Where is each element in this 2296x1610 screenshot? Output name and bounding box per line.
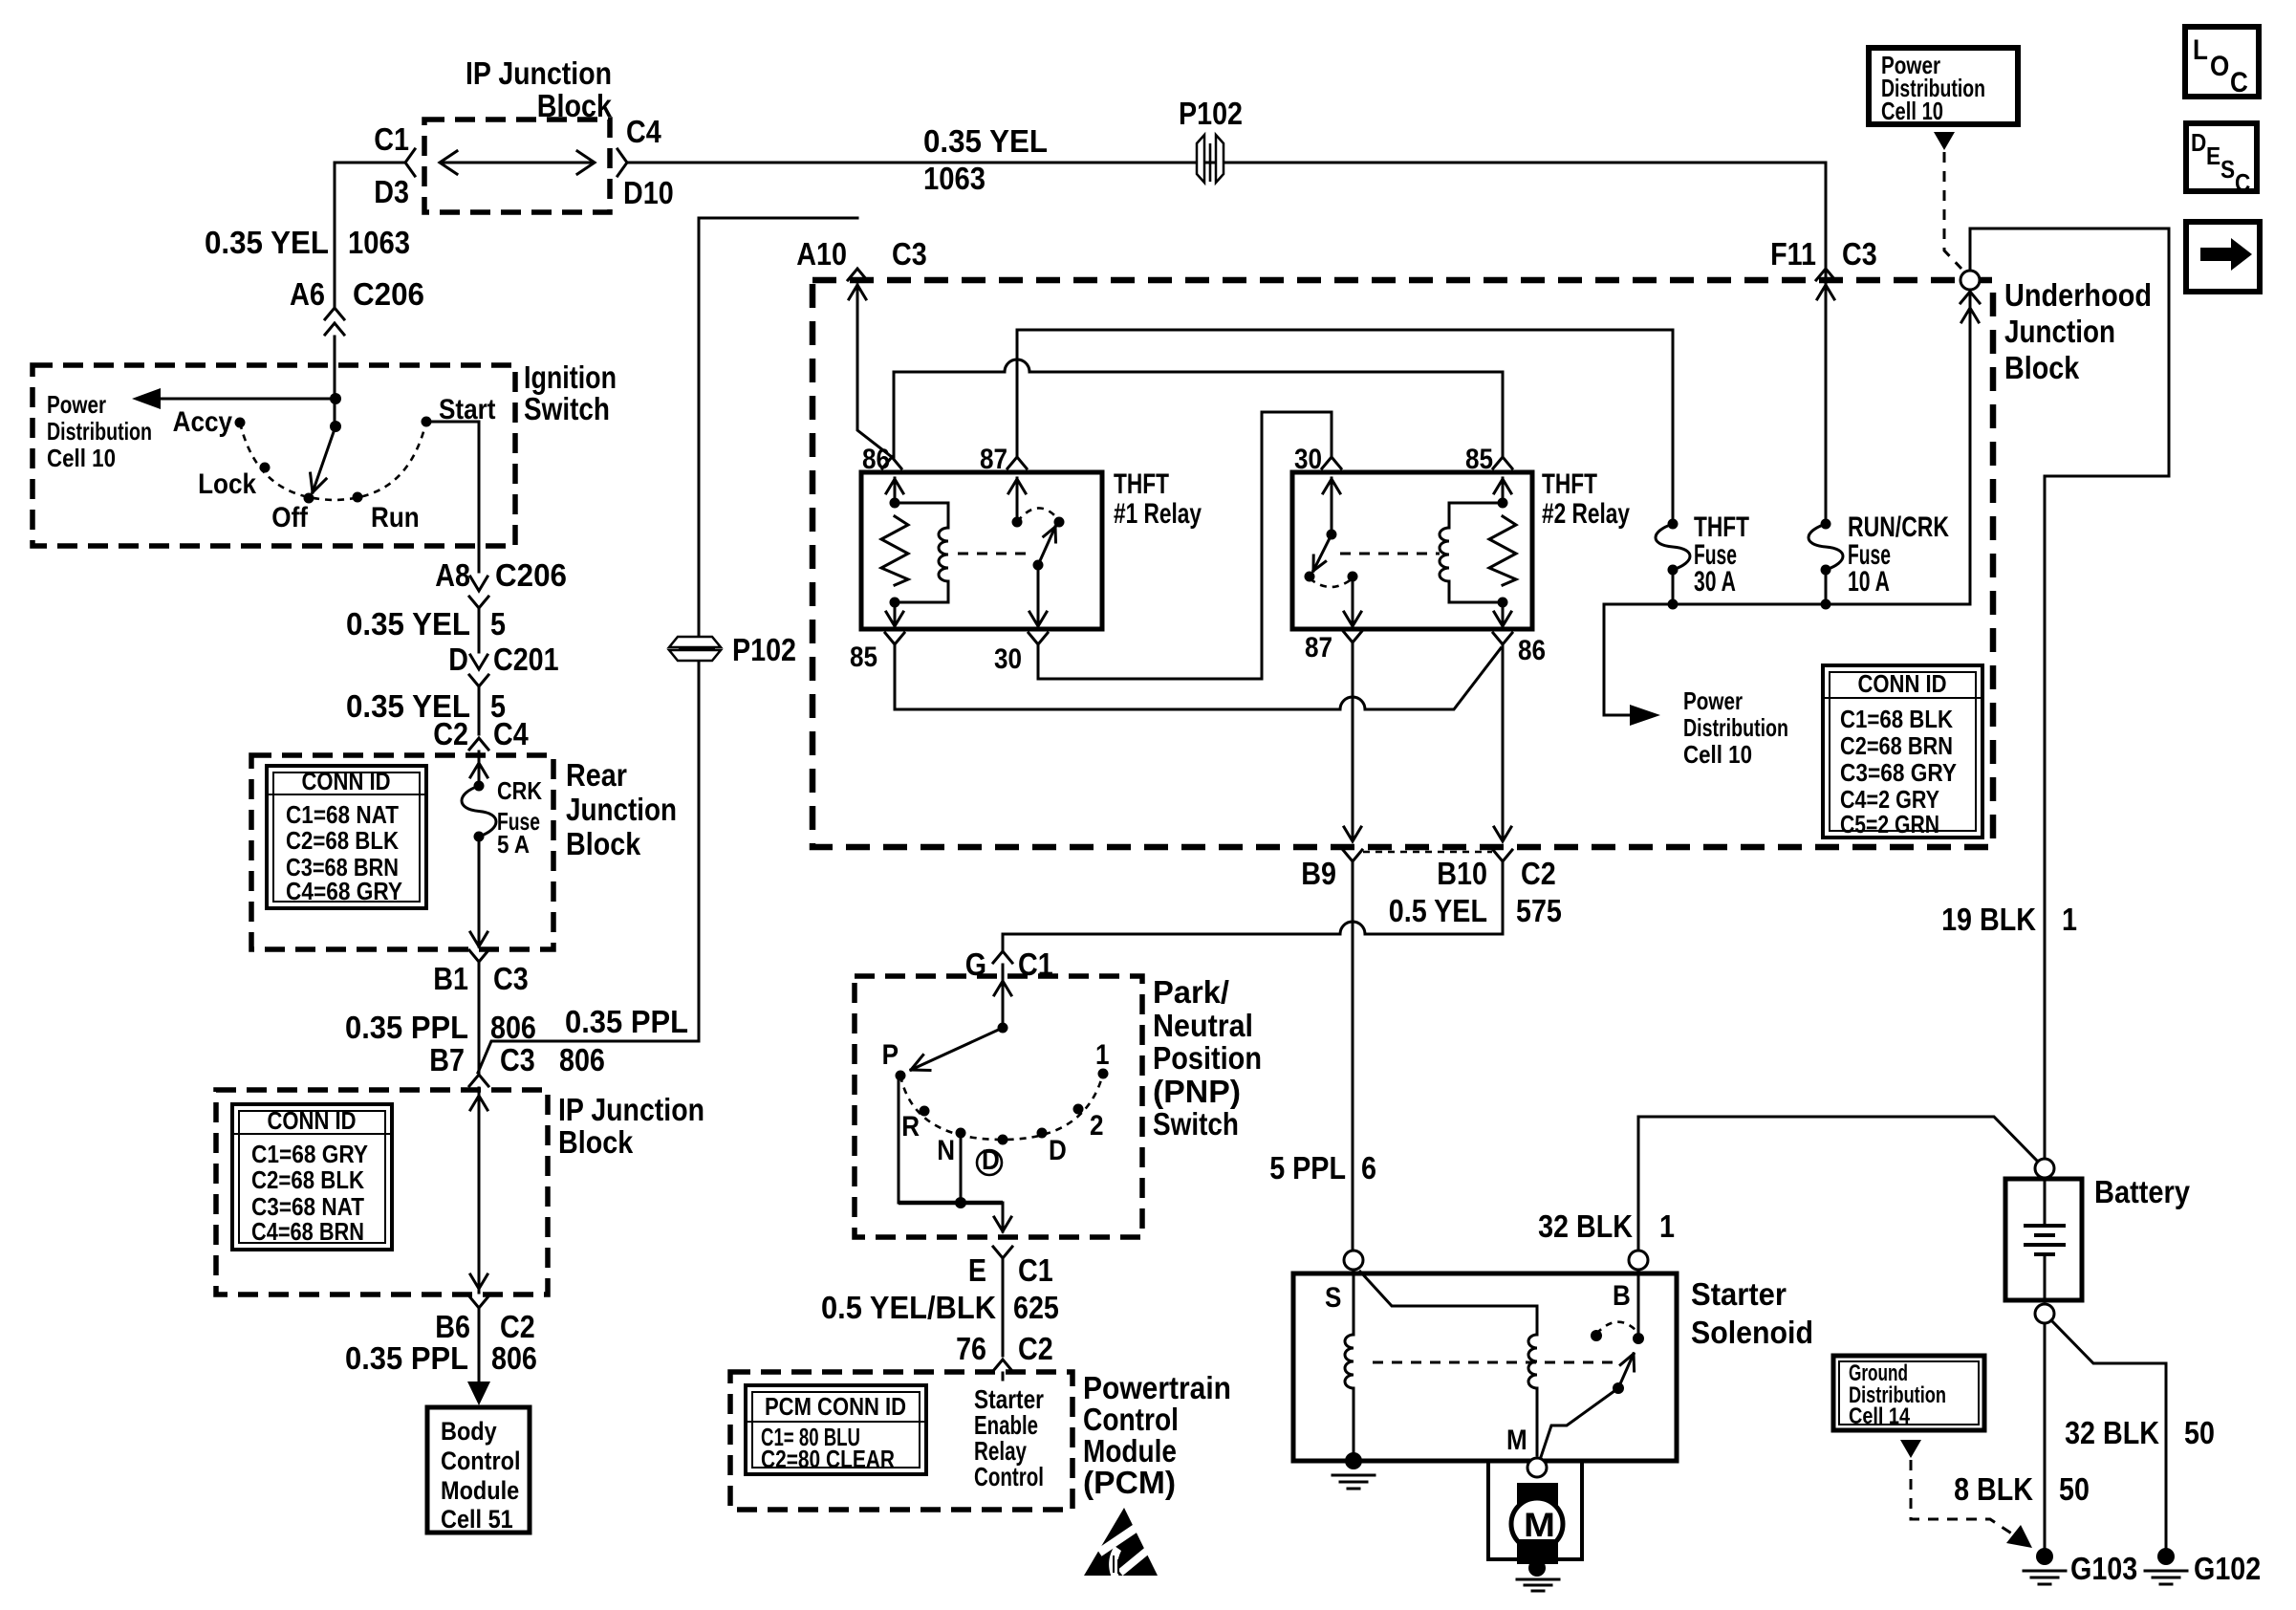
wire from A10 into relay 1 pin 86	[849, 285, 866, 299]
solenoid actuation dashed link	[1373, 1361, 1614, 1364]
svg-text:(PNP): (PNP)	[1153, 1074, 1241, 1109]
svg-text:C1: C1	[374, 121, 409, 157]
starter solenoid box	[1293, 1273, 1677, 1461]
DESC reference box	[2186, 123, 2257, 197]
ground G103	[2024, 1548, 2066, 1584]
svg-text:C3=68 GRY: C3=68 GRY	[1840, 758, 1957, 787]
svg-text:Starter: Starter	[1691, 1276, 1787, 1312]
svg-text:30: 30	[994, 643, 1022, 675]
svg-text:G102: G102	[2194, 1551, 2261, 1586]
battery positive terminal circle	[2035, 1159, 2054, 1178]
connector C3 chevron below rear junction block	[469, 950, 488, 962]
svg-text:CONN ID: CONN ID	[1858, 669, 1947, 698]
svg-text:L: L	[2193, 34, 2208, 66]
connector C3 chevron F11	[1816, 269, 1835, 280]
svg-text:B6: B6	[435, 1309, 470, 1344]
svg-text:C2: C2	[433, 716, 468, 751]
battery G1 box	[2005, 1179, 2082, 1300]
fuse output bus wire	[1604, 603, 1970, 606]
ground distribution pointer triangle	[1900, 1440, 1921, 1458]
relay K1 pin 30 fork	[1029, 633, 1048, 644]
svg-text:50: 50	[2184, 1415, 2215, 1450]
svg-text:M: M	[1506, 1425, 1527, 1456]
relay K2 switch common lead (pin 30)	[1331, 478, 1333, 534]
starter motor brush (top)	[1517, 1483, 1558, 1509]
svg-text:C4: C4	[493, 716, 529, 751]
solenoid switch link to M terminal	[1541, 1388, 1618, 1457]
svg-text:Switch: Switch	[1153, 1106, 1239, 1142]
connector C2 chevron below IP junction block	[469, 1296, 488, 1308]
wire B10 to PNP switch G (hop over B9 wire)	[1003, 861, 1503, 949]
PNP switch common pivot node	[998, 1023, 1008, 1033]
relay K1 pin 86 fork	[882, 457, 901, 468]
wire RUN/CRK fuse to bus	[1825, 570, 1828, 604]
svg-text:A8: A8	[435, 557, 470, 593]
svg-text:C2=68 BLK: C2=68 BLK	[251, 1165, 364, 1194]
relay K2 switch throw contact	[1305, 572, 1315, 582]
svg-text:32 BLK: 32 BLK	[2065, 1415, 2159, 1450]
svg-text:2: 2	[1090, 1110, 1104, 1142]
svg-text:Block: Block	[2004, 350, 2080, 385]
ESD sensitive device symbol	[1084, 1508, 1158, 1577]
svg-text:CONN ID: CONN ID	[302, 767, 391, 795]
svg-text:0.35 YEL: 0.35 YEL	[205, 225, 329, 260]
theft deterrent relay center dashed box	[812, 280, 1993, 847]
svg-text:30 A: 30 A	[1694, 566, 1736, 598]
svg-text:Battery: Battery	[2094, 1174, 2191, 1209]
relay K1 resistor	[881, 516, 908, 585]
PNP position dashed arc	[900, 1074, 1103, 1140]
CRK fuse element	[462, 786, 496, 837]
connector C206 chevron (A8)	[469, 597, 488, 608]
svg-text:C1: C1	[1018, 1252, 1053, 1288]
svg-text:C2: C2	[500, 1309, 535, 1344]
svg-text:R: R	[901, 1111, 920, 1142]
svg-text:D10: D10	[623, 175, 674, 210]
relay K1 switch output lead (pin 30)	[1037, 565, 1040, 626]
PNP contact P	[896, 1071, 906, 1081]
RUN/CRK fuse top terminal	[1821, 519, 1831, 530]
starter motor M1	[1511, 1498, 1563, 1550]
terminal B circle	[1629, 1251, 1648, 1270]
svg-text:A10: A10	[796, 236, 847, 272]
svg-text:N: N	[937, 1135, 955, 1166]
svg-text:F11: F11	[1770, 236, 1816, 272]
solenoid coil case ground	[1345, 1452, 1362, 1469]
Rear Junction Block dashed box	[251, 755, 553, 949]
junction node THFT fuse / bus	[1668, 599, 1679, 610]
svg-text:C4=68 BRN: C4=68 BRN	[251, 1217, 364, 1246]
wire F11 to RUN/CRK fuse	[1825, 163, 1828, 524]
svg-text:Neutral: Neutral	[1153, 1008, 1253, 1043]
svg-text:Cell 10: Cell 10	[1881, 97, 1943, 125]
wire B9 down to starter solenoid S	[1352, 861, 1354, 1251]
solenoid switch dashed travel arc	[1596, 1322, 1636, 1334]
ground G102	[2145, 1548, 2187, 1584]
solenoid switch fixed contact (B)	[1633, 1333, 1644, 1344]
THFT #2 relay K2 box	[1292, 472, 1532, 629]
svg-text:C1=68 NAT: C1=68 NAT	[286, 800, 399, 829]
CRK fuse bottom terminal	[474, 832, 485, 842]
CONN ID table (rear junction block)	[267, 766, 426, 908]
wire through IP junction block	[478, 1088, 481, 1293]
svg-text:C5=2 GRN: C5=2 GRN	[1840, 810, 1939, 838]
wire from fuse to block exit	[478, 837, 481, 946]
svg-text:Block: Block	[558, 1124, 634, 1160]
svg-text:Ignition: Ignition	[524, 359, 617, 395]
svg-text:Power: Power	[47, 390, 106, 419]
svg-text:D: D	[448, 642, 468, 677]
svg-text:87: 87	[1305, 632, 1332, 664]
relay K2 coil winding	[1449, 503, 1503, 528]
wire arrow to power distribution cell 10	[158, 398, 336, 401]
connector C4 chevron	[617, 149, 627, 176]
ignition position contact Off	[304, 493, 314, 504]
svg-text:0.35 PPL: 0.35 PPL	[345, 1010, 468, 1045]
starter motor housing	[1488, 1461, 1582, 1559]
svg-text:P: P	[882, 1039, 899, 1071]
svg-text:C3: C3	[493, 961, 529, 996]
relay K1 switch common lead (pin 87)	[1016, 478, 1019, 522]
PNP contact 2	[1073, 1104, 1084, 1115]
relay K2 switch output lead (pin 87)	[1352, 577, 1354, 626]
wire 0.35 YEL 1063 to underhood junction block	[629, 162, 1826, 164]
svg-text:Block: Block	[566, 826, 641, 861]
junction node at ignition feed	[330, 393, 341, 404]
CONN ID table (IP junction block)	[232, 1104, 392, 1250]
svg-text:1063: 1063	[348, 225, 410, 260]
relay K1 pin 85 fork	[885, 633, 904, 644]
relay K1 switch dashed travel arc	[1017, 508, 1059, 522]
svg-text:B7: B7	[429, 1042, 465, 1077]
svg-text:50: 50	[2059, 1471, 2090, 1507]
svg-text:0.5 YEL/BLK: 0.5 YEL/BLK	[821, 1290, 996, 1325]
svg-text:Power: Power	[1683, 686, 1743, 715]
wire relay K1 pin 87 to THFT fuse	[1017, 330, 1673, 524]
battery negative terminal circle	[2035, 1304, 2054, 1323]
svg-text:0.35 YEL: 0.35 YEL	[346, 606, 470, 642]
svg-text:Block: Block	[537, 88, 613, 123]
svg-text:1063: 1063	[923, 161, 986, 196]
svg-text:Module: Module	[1083, 1433, 1177, 1469]
wire N contact jumper	[960, 1133, 963, 1203]
PNP contact D(circled)	[998, 1135, 1008, 1145]
svg-text:C4: C4	[626, 114, 661, 149]
svg-text:C2: C2	[1018, 1331, 1053, 1366]
svg-text:Junction: Junction	[2004, 314, 2115, 349]
terminal M circle	[1527, 1458, 1547, 1477]
inline connector P102 (top)	[1197, 135, 1224, 183]
connector C201 chevron	[469, 675, 488, 686]
svg-text:Run: Run	[371, 502, 420, 533]
connector C3 chevron A10	[848, 269, 867, 280]
wire P contact to PNP output	[898, 1076, 900, 1203]
relay K2 switch dashed travel arc	[1310, 578, 1353, 587]
PCM CONN ID table	[746, 1385, 926, 1474]
connector C2 chevron into PCM	[993, 1360, 1012, 1371]
svg-text:87: 87	[980, 444, 1007, 475]
relay K1 actuation dashed link	[958, 553, 1029, 555]
svg-text:Accy: Accy	[173, 406, 233, 438]
svg-text:C2=68 BLK: C2=68 BLK	[286, 826, 399, 855]
solenoid switch throw contact	[1591, 1330, 1602, 1341]
svg-text:Powertrain: Powertrain	[1083, 1370, 1231, 1405]
wire through rear junction block with CRK fuse	[478, 760, 481, 786]
ignition position contact Lock	[260, 463, 271, 473]
RUN/CRK fuse bottom terminal	[1821, 565, 1831, 576]
svg-text:C2=80 CLEAR: C2=80 CLEAR	[761, 1445, 895, 1473]
svg-text:Solenoid: Solenoid	[1691, 1315, 1813, 1350]
svg-text:1: 1	[2062, 902, 2077, 937]
wire 0.35 PPL 806	[478, 962, 481, 1075]
LOC reference box	[2185, 27, 2259, 98]
solenoid contact switch B lead	[1637, 1270, 1640, 1336]
wire 0.5 YEL/BLK 625 to PCM	[1002, 1258, 1005, 1356]
relay K1 pin 87 fork	[1007, 457, 1027, 468]
wire into ignition switch	[334, 337, 336, 426]
relay K1 switch pivot node	[1033, 560, 1044, 571]
connector C2 chevron B10	[1493, 850, 1512, 861]
Powertrain Control Module dashed box	[730, 1372, 1072, 1510]
svg-text:THFT: THFT	[1542, 468, 1597, 500]
connector C1 chevron	[405, 149, 415, 176]
wire double-headed arrow inside IP junction block	[442, 162, 593, 164]
solenoid switch pivot node	[1613, 1382, 1624, 1394]
wire relay K1 pin 30 to relay K2 pin 30	[1038, 412, 1332, 679]
ignition switch common pivot node	[330, 421, 341, 432]
svg-text:Cell 14: Cell 14	[1849, 1403, 1911, 1429]
svg-text:Control: Control	[974, 1462, 1044, 1491]
wire THFT fuse to bus	[1672, 570, 1675, 604]
svg-text:Cell 10: Cell 10	[47, 444, 116, 472]
wire from Start contact down through C206	[426, 422, 479, 572]
svg-text:Lock: Lock	[198, 468, 256, 500]
solenoid pull-in coil winding	[1353, 1270, 1355, 1335]
svg-text:A6: A6	[290, 276, 325, 312]
PNP contact 1	[1098, 1069, 1109, 1079]
svg-text:625: 625	[1013, 1290, 1059, 1325]
connector C4 chevron into rear junction block	[469, 738, 488, 750]
connector C2 chevron B9	[1343, 850, 1362, 861]
ignition position contact Run	[353, 492, 363, 503]
svg-text:Cell 51: Cell 51	[441, 1505, 513, 1534]
svg-text:86: 86	[1518, 635, 1546, 666]
wire G into PNP switch	[1002, 965, 1005, 1028]
solenoid switch arm with arrow	[1618, 1354, 1634, 1388]
terminal S circle	[1344, 1251, 1363, 1270]
power distribution pointer triangle	[1934, 132, 1955, 150]
svg-text:D: D	[2191, 128, 2206, 157]
svg-text:#1 Relay: #1 Relay	[1114, 498, 1202, 530]
relay K2 pin 86 fork	[1493, 633, 1512, 644]
relay K1 switch arm with arrow	[1038, 527, 1055, 565]
svg-text:M: M	[1524, 1507, 1555, 1544]
svg-text:76: 76	[956, 1331, 986, 1366]
svg-text:C201: C201	[493, 642, 559, 677]
svg-text:Distribution: Distribution	[1683, 713, 1788, 742]
ignition switch movable arm with arrow toward Off	[313, 426, 336, 492]
wire relay K1 pin 86 to relay K2 pin 85 (hop over 87 wire)	[894, 359, 1503, 457]
connector C3 fork at B7	[469, 1075, 488, 1086]
relay K1 switch fixed contact	[1012, 517, 1023, 528]
svg-text:19 BLK: 19 BLK	[1941, 902, 2036, 937]
svg-text:D: D	[1049, 1135, 1067, 1166]
svg-text:Distribution: Distribution	[47, 417, 152, 446]
forward arrow reference box	[2186, 222, 2260, 292]
svg-text:806: 806	[491, 1340, 537, 1376]
svg-text:Park/: Park/	[1153, 974, 1229, 1010]
relay K2 pin 85 fork	[1493, 457, 1512, 468]
svg-text:Module: Module	[441, 1476, 519, 1505]
svg-text:Switch: Switch	[524, 391, 610, 426]
svg-text:0.5 YEL: 0.5 YEL	[1389, 893, 1487, 928]
CONN ID table (underhood junction block)	[1823, 665, 1982, 838]
svg-text:E: E	[968, 1252, 986, 1288]
svg-text:575: 575	[1516, 893, 1562, 928]
svg-text:1: 1	[1659, 1208, 1675, 1244]
svg-text:86: 86	[862, 444, 890, 475]
starter motor ground	[1528, 1559, 1546, 1577]
svg-text:C1=68 BLK: C1=68 BLK	[1840, 705, 1953, 733]
relay K1 coil top node	[890, 498, 900, 509]
starter motor brush (bottom)	[1517, 1539, 1558, 1564]
svg-text:B10: B10	[1437, 856, 1487, 891]
PNP contact D	[1037, 1128, 1048, 1139]
svg-text:C3: C3	[892, 236, 927, 272]
ignition position contact Start	[422, 417, 432, 427]
IP Junction Block (lower) dashed box	[216, 1090, 548, 1295]
wire relay K2 pin 87 to B9	[1352, 642, 1354, 839]
svg-text:Rear: Rear	[566, 757, 627, 793]
svg-text:0.35 PPL: 0.35 PPL	[345, 1340, 468, 1376]
svg-text:Off: Off	[271, 502, 309, 533]
svg-text:P102: P102	[732, 632, 796, 667]
relay K2 coil output lead (pin 86)	[1502, 602, 1505, 626]
svg-text:C1=68 GRY: C1=68 GRY	[251, 1140, 368, 1168]
svg-text:806: 806	[490, 1010, 536, 1045]
connector C206 double chevron	[325, 308, 344, 319]
relay K1 coil output lead (pin 85)	[894, 602, 897, 626]
svg-text:C3: C3	[500, 1042, 535, 1077]
svg-text:8 BLK: 8 BLK	[1954, 1471, 2033, 1507]
branch wire 0.35 PPL 806 to PNP switch area	[478, 218, 857, 1073]
svg-text:Position: Position	[1153, 1040, 1262, 1076]
relay K1 coil bottom node	[890, 598, 900, 608]
relay K2 pin 87 fork	[1343, 631, 1362, 642]
wire 0.35 YEL 5	[478, 608, 481, 652]
Park/Neutral Position switch dashed box	[855, 976, 1142, 1237]
svg-text:5 A: 5 A	[497, 830, 530, 859]
svg-text:S: S	[2220, 155, 2235, 184]
svg-text:Control: Control	[1083, 1402, 1179, 1437]
svg-text:85: 85	[1465, 444, 1493, 475]
wire 0.35 YEL 1063 down to ignition switch	[334, 163, 336, 306]
svg-text:6: 6	[1361, 1150, 1376, 1186]
svg-text:(PCM): (PCM)	[1083, 1465, 1176, 1500]
dashed reference line to UJB terminal	[1944, 152, 1961, 269]
PNP contact R	[920, 1106, 930, 1117]
svg-text:IP Junction: IP Junction	[466, 55, 612, 91]
relay K2 switch arm with arrow	[1313, 534, 1332, 571]
svg-text:Junction: Junction	[566, 792, 677, 827]
svg-text:1: 1	[1095, 1039, 1110, 1071]
svg-text:C206: C206	[353, 276, 424, 312]
svg-text:10 A: 10 A	[1848, 566, 1890, 598]
svg-text:5 PPL: 5 PPL	[1269, 1150, 1346, 1186]
dashed reference line 8 BLK to G103	[1911, 1460, 2019, 1538]
svg-text:B1: B1	[433, 961, 468, 996]
PNP contact N	[956, 1128, 966, 1139]
PNP switch arm with arrow to P	[911, 1028, 1003, 1070]
svg-text:C: C	[2230, 67, 2248, 98]
Body Control Module box	[427, 1407, 530, 1533]
svg-text:G103: G103	[2070, 1551, 2137, 1586]
relay K2 actuation dashed link	[1340, 553, 1440, 555]
svg-text:C2=68 BRN: C2=68 BRN	[1840, 731, 1953, 760]
svg-text:#2 Relay: #2 Relay	[1542, 498, 1630, 530]
svg-text:CRK: CRK	[497, 776, 542, 805]
Power Distribution Cell 10 reference box (top right)	[1869, 48, 2018, 124]
relay K1 switch throw contact	[1054, 517, 1065, 528]
wire 8 BLK 50 battery to G103	[2044, 1323, 2047, 1549]
svg-text:0.35 YEL: 0.35 YEL	[923, 123, 1048, 159]
svg-text:Underhood: Underhood	[2004, 277, 2152, 313]
svg-text:30: 30	[1294, 444, 1322, 475]
Ground Distribution Cell 14 reference box	[1833, 1356, 1984, 1430]
svg-text:Cell 10: Cell 10	[1683, 740, 1752, 769]
svg-text:C: C	[2235, 168, 2250, 197]
connector C2 dashed pair line	[1363, 851, 1492, 854]
THFT fuse top terminal	[1668, 519, 1679, 530]
wire UJB terminal to fuse bus	[1969, 290, 1972, 604]
connector C1 chevron E	[993, 1247, 1012, 1258]
inline connector P102 (branch wire)	[669, 637, 721, 661]
svg-text:C4=68 GRY: C4=68 GRY	[286, 877, 402, 905]
relay K2 switch pivot node	[1327, 530, 1337, 540]
svg-text:32 BLK: 32 BLK	[1538, 1208, 1633, 1244]
junction node RUN/CRK fuse / bus	[1821, 599, 1831, 610]
wire relay K2 pin 86 to B10	[1502, 644, 1505, 839]
THFT fuse element	[1656, 524, 1690, 570]
relay K2 coil input lead (pin 85)	[1502, 478, 1505, 503]
svg-text:IP Junction: IP Junction	[558, 1092, 704, 1127]
junction node PNP output	[955, 1197, 966, 1208]
IP Junction Block (top) dashed box	[424, 120, 610, 212]
svg-text:B9: B9	[1301, 856, 1336, 891]
svg-text:CONN ID: CONN ID	[268, 1106, 357, 1135]
ignition switch position dashed arc	[240, 422, 426, 500]
svg-text:Control: Control	[441, 1447, 521, 1475]
connector C1 chevron G	[993, 951, 1012, 963]
UJB terminal circle	[1960, 271, 1980, 290]
ignition switch dashed box	[32, 365, 515, 546]
wire 32 BLK 1 from battery to terminal B	[1638, 1117, 2037, 1251]
relay K2 pin 30 fork	[1322, 457, 1341, 468]
wire 0.35 PPL 806 to BCM	[478, 1308, 481, 1382]
svg-text:P102: P102	[1179, 96, 1243, 131]
svg-text:O: O	[2210, 51, 2229, 82]
svg-text:0.35 PPL: 0.35 PPL	[565, 1004, 688, 1039]
svg-text:C2: C2	[1521, 856, 1556, 891]
svg-text:B: B	[1613, 1280, 1631, 1312]
svg-text:PCM CONN ID: PCM CONN ID	[765, 1392, 906, 1421]
solenoid hold-in coil winding	[1360, 1272, 1537, 1335]
battery cell plates	[2044, 1179, 2047, 1226]
wire ignition feed to IP junction block C1	[335, 162, 404, 164]
svg-text:C206: C206	[495, 557, 567, 593]
underhood junction block outline	[1970, 228, 2169, 1159]
svg-text:E: E	[2206, 141, 2220, 170]
